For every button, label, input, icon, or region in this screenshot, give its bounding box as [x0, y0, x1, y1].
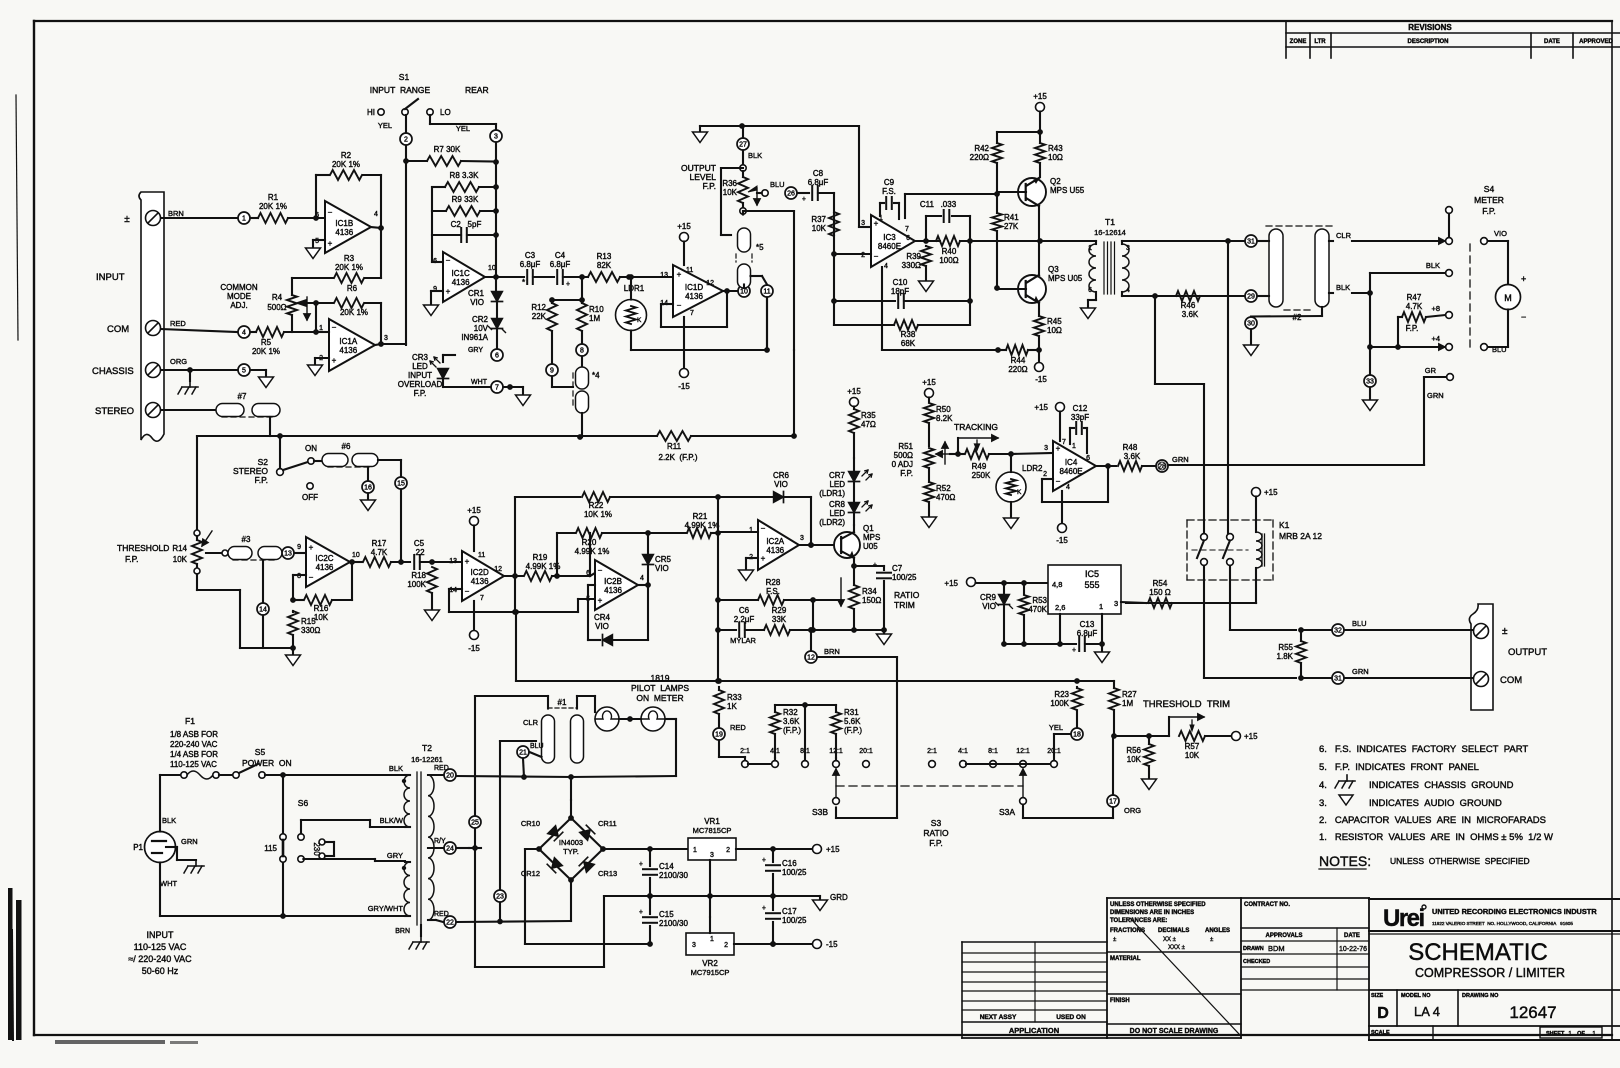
svg-text:R16: R16	[314, 604, 329, 613]
svg-text:CR2: CR2	[472, 315, 489, 324]
VR2 pin1 to ground rail	[709, 917, 711, 933]
wire S3A 4:1-20:1 link	[966, 763, 1050, 765]
svg-text:CR7: CR7	[829, 471, 846, 480]
svg-text:7: 7	[690, 310, 694, 317]
svg-text:MATERIAL: MATERIAL	[1110, 956, 1141, 962]
wire R28/C6 rows junction riser	[812, 600, 814, 630]
svg-text:IC4: IC4	[1065, 458, 1078, 467]
svg-text:R52: R52	[936, 484, 951, 493]
wire COM to node 4	[161, 329, 237, 332]
svg-text:R21: R21	[693, 512, 708, 521]
bridge rectifier IN4003 TYP	[570, 800, 572, 818]
wire CR6 to Q1 base node	[810, 497, 812, 545]
transistor Q1 MPS U05	[834, 532, 860, 558]
capacitor C13 6.8uF	[1078, 637, 1080, 651]
T1 primary pins	[1095, 241, 1097, 244]
resistor R18 100K	[427, 567, 437, 593]
svg-text:4136: 4136	[604, 586, 622, 595]
node 27	[737, 138, 749, 150]
svg-text:XXX ±: XXX ±	[1168, 945, 1186, 951]
node 24	[444, 842, 456, 854]
svg-text:6.8μF: 6.8μF	[520, 260, 541, 269]
resistor R13 82K	[588, 272, 620, 282]
svg-text:DIMENSIONS ARE IN INCHES: DIMENSIONS ARE IN INCHES	[1110, 910, 1194, 916]
svg-text:F1: F1	[185, 716, 195, 726]
svg-text:1/8 ASB FOR: 1/8 ASB FOR	[170, 730, 218, 739]
lamp link wire	[619, 718, 641, 720]
capacitor C17 100/25	[772, 896, 774, 910]
svg-text:150 Ω: 150 Ω	[1149, 588, 1171, 597]
resistor R43 10ohm	[1035, 143, 1045, 163]
R36 wiper	[748, 186, 757, 192]
svg-text:+15: +15	[1034, 403, 1048, 412]
capacitor C7 100/25	[854, 565, 884, 567]
svg-text:APPROVED: APPROVED	[1579, 39, 1613, 45]
wire P1 top to fuse	[159, 775, 161, 832]
-15 supply Q3	[1038, 350, 1040, 362]
svg-text:APPROVALS: APPROVALS	[1266, 933, 1303, 939]
timer IC5 555	[1048, 565, 1121, 614]
svg-text:470Ω: 470Ω	[936, 493, 955, 502]
wire S6 upper link to T2 tap	[300, 820, 302, 834]
resistor R56 10K	[1144, 744, 1154, 766]
svg-text:C16: C16	[782, 859, 797, 868]
wire jack5 to node10	[743, 285, 745, 289]
op-amp IC2C	[306, 537, 350, 587]
S4 common stub	[1446, 207, 1453, 214]
svg-text:1: 1	[693, 847, 697, 854]
svg-text:STEREO: STEREO	[95, 406, 134, 417]
svg-text:25: 25	[471, 820, 479, 827]
svg-text:4: 4	[1126, 287, 1130, 294]
GRD stub	[819, 896, 821, 900]
svg-text:OVERLOAD: OVERLOAD	[398, 380, 443, 389]
wire STEREO to jack 7	[161, 409, 216, 411]
svg-text:BLK: BLK	[748, 151, 762, 160]
svg-text:115: 115	[264, 844, 277, 853]
svg-text:USED ON: USED ON	[1056, 1014, 1086, 1021]
node 10	[738, 285, 750, 297]
+15 feed 555	[967, 578, 976, 587]
svg-text:10K: 10K	[723, 188, 738, 197]
svg-text:20K 1%: 20K 1%	[335, 263, 363, 272]
svg-text:+15: +15	[467, 506, 481, 515]
wire C8 to IC3 input	[833, 193, 835, 254]
svg-text:UNLESS OTHERWISE SPECIFIED: UNLESS OTHERWISE SPECIFIED	[1110, 902, 1206, 908]
node 14	[262, 560, 264, 603]
resistor R46 3.6K	[1176, 291, 1200, 301]
bridge minus to VR2 rail	[525, 848, 539, 850]
wire S3A wiper to node17	[1022, 805, 1024, 819]
diode CR12	[547, 857, 563, 873]
op-amp IC4 8460E	[1053, 441, 1096, 491]
jack #6	[322, 454, 348, 467]
S1 arm	[405, 99, 418, 109]
node 18	[1071, 728, 1083, 740]
svg-text:IC3: IC3	[883, 233, 896, 242]
svg-text:VR1: VR1	[704, 817, 720, 826]
svg-text:R22: R22	[589, 501, 604, 510]
pilot lamp DS2	[641, 707, 665, 731]
svg-text:GRN: GRN	[1427, 391, 1444, 400]
photocell LDR1	[616, 300, 647, 331]
svg-text:D: D	[1377, 1005, 1389, 1022]
Q1 emitter to R34	[853, 558, 855, 585]
wire input to node 1	[161, 217, 237, 219]
bridge diamond wires	[539, 818, 571, 849]
svg-text:GRN: GRN	[1352, 667, 1369, 676]
svg-text:MC7815CP: MC7815CP	[693, 826, 732, 835]
svg-text:DRAWING NO: DRAWING NO	[1462, 993, 1499, 999]
svg-text:+: +	[639, 861, 643, 868]
svg-text:2:1: 2:1	[927, 748, 937, 755]
svg-text:TRACKING: TRACKING	[954, 422, 998, 432]
svg-text:4.99K 1%: 4.99K 1%	[526, 562, 561, 571]
svg-text:R11: R11	[667, 442, 682, 451]
svg-text:LED: LED	[829, 509, 845, 518]
wire R1 to IC1B pin6	[288, 217, 325, 219]
svg-text:BRN: BRN	[824, 647, 840, 656]
+15 relay coil	[1252, 488, 1261, 497]
transistor Q3 MPS U05	[1018, 275, 1046, 303]
svg-text:11922 VALERIO STREET NO. HOLL: 11922 VALERIO STREET NO. HOLLYWOOD, CALI…	[1432, 921, 1573, 926]
node 21	[517, 746, 529, 758]
svg-text:16: 16	[364, 485, 372, 492]
svg-text:-15: -15	[1056, 536, 1068, 545]
svg-text:+: +	[1056, 444, 1061, 453]
svg-text:30: 30	[1247, 321, 1255, 328]
svg-text:470K: 470K	[1028, 605, 1047, 614]
svg-text:4.: 4.	[1319, 780, 1327, 791]
node 33	[1364, 375, 1376, 387]
svg-text:U05: U05	[863, 542, 878, 551]
svg-text:VIO: VIO	[1494, 229, 1507, 238]
capacitor C10 18pF loop	[833, 254, 835, 325]
svg-text:CR4: CR4	[594, 613, 611, 622]
feedback row R6	[302, 302, 333, 304]
svg-text:C12: C12	[1073, 404, 1088, 413]
svg-text:CR1: CR1	[468, 289, 485, 298]
svg-text:C13: C13	[1080, 620, 1095, 629]
+15 supply Q2	[1036, 103, 1045, 112]
svg-text:+: +	[639, 909, 643, 916]
svg-text:R4: R4	[272, 293, 283, 302]
ground T1 pin6	[1081, 308, 1096, 319]
contract / approvals box	[1240, 898, 1242, 1038]
svg-text:IN961A: IN961A	[461, 333, 488, 342]
S4 +4 contact with arrow	[1446, 344, 1453, 351]
wire 555 pin1 down	[1101, 614, 1103, 644]
wire GR contact down to GRN row	[1424, 376, 1447, 378]
svg-text:F.P.: F.P.	[414, 389, 427, 398]
svg-text:(LDR1): (LDR1)	[819, 489, 845, 498]
ground node16	[367, 494, 369, 501]
bottom-left smudge text	[55, 1040, 165, 1044]
S4 CLR contact with arrow	[1432, 240, 1445, 242]
svg-text:20K 1%: 20K 1%	[340, 308, 368, 317]
svg-text:T2: T2	[422, 743, 432, 753]
svg-text:S3A: S3A	[999, 807, 1015, 817]
svg-text:−: −	[874, 252, 879, 261]
ground at IC1C pin9	[431, 290, 443, 292]
wire R36 bottom to R11 bus	[742, 211, 744, 215]
svg-text:7: 7	[495, 385, 499, 392]
jack #5	[738, 228, 751, 252]
+15 IC4	[1056, 403, 1065, 412]
svg-text:F.S.: F.S.	[766, 587, 780, 596]
svg-text:16-12614: 16-12614	[1094, 228, 1126, 237]
op-amp IC2D	[462, 551, 504, 601]
ground R15	[263, 647, 293, 649]
T2 core	[416, 772, 418, 925]
svg-text:7: 7	[1062, 439, 1066, 446]
wire R36 top loop to jack5	[721, 167, 743, 169]
svg-text:10: 10	[740, 289, 748, 296]
svg-text:±: ±	[124, 214, 130, 225]
svg-text:4136: 4136	[452, 278, 470, 287]
svg-text:LDR1: LDR1	[624, 284, 645, 293]
svg-text:ORG: ORG	[170, 357, 187, 366]
svg-text:−: −	[328, 208, 333, 217]
wire jack2 BLK out	[1329, 292, 1333, 294]
S6 230 link box	[319, 839, 325, 845]
svg-text:+: +	[1072, 647, 1076, 654]
jack #2	[1269, 229, 1283, 307]
resistor R10 1M	[579, 297, 585, 303]
svg-text:R10: R10	[589, 305, 604, 314]
tracking up arrow	[944, 442, 946, 464]
resistor R20 4.99K 1%	[557, 532, 575, 534]
svg-text:1: 1	[710, 936, 714, 943]
resistor R16 10K	[293, 599, 303, 601]
svg-text:*: *	[522, 278, 525, 287]
svg-text:LED: LED	[412, 362, 428, 371]
ground C13	[1101, 644, 1103, 652]
svg-text:9: 9	[550, 368, 554, 375]
svg-text:26: 26	[787, 191, 795, 198]
resistor R17 4.7K	[363, 557, 391, 567]
svg-text:−: −	[332, 323, 337, 332]
wire R6 junction into IC1A pin1	[315, 303, 317, 332]
svg-text:2100/30: 2100/30	[659, 919, 688, 928]
resistor R50 8.2K	[924, 403, 934, 423]
svg-text:R13: R13	[597, 252, 612, 261]
svg-text:CR5: CR5	[655, 555, 672, 564]
svg-text:SIZE: SIZE	[1371, 993, 1384, 999]
svg-text:14: 14	[259, 607, 267, 614]
svg-text:S6: S6	[298, 798, 309, 808]
svg-text:COM: COM	[107, 324, 129, 335]
svg-text:VIO: VIO	[774, 480, 788, 489]
capacitor C9 F.S. loop	[879, 203, 881, 216]
svg-text:XX ±: XX ±	[1163, 937, 1177, 943]
zener CR2 10V IN961A	[496, 303, 498, 317]
svg-text:4136: 4136	[471, 577, 489, 586]
svg-text:CHECKED: CHECKED	[1243, 959, 1270, 965]
-15 IC2D	[473, 601, 475, 630]
svg-text:3: 3	[494, 134, 498, 141]
IC2D feedback loop	[449, 588, 462, 590]
svg-text:19: 19	[715, 732, 723, 739]
svg-text:32: 32	[1334, 628, 1342, 635]
svg-text:4:1: 4:1	[958, 748, 968, 755]
svg-text:21: 21	[519, 750, 527, 757]
node 15	[378, 459, 401, 461]
svg-text:1.8K: 1.8K	[1277, 652, 1294, 661]
svg-text:R3: R3	[344, 254, 355, 263]
node 19	[713, 728, 725, 740]
svg-text:12: 12	[706, 280, 714, 287]
svg-text:R38: R38	[901, 330, 916, 339]
capacitor C16 100/25	[772, 849, 774, 862]
pilot lamp DS1	[595, 707, 619, 731]
svg-text:2,6: 2,6	[1055, 603, 1065, 612]
svg-text:NOTES:: NOTES:	[1319, 853, 1371, 869]
node 12 stub	[810, 630, 812, 651]
LED CR7 (LDR1 drive)	[853, 525, 855, 532]
svg-text:*4: *4	[592, 371, 600, 380]
pot R36 10K	[740, 165, 746, 171]
svg-text:4: 4	[242, 330, 246, 337]
svg-text:R42: R42	[974, 144, 989, 153]
svg-text:+15: +15	[826, 845, 840, 854]
svg-text:R15: R15	[301, 617, 316, 626]
svg-text:10K: 10K	[314, 613, 329, 622]
svg-text:THRESHOLD: THRESHOLD	[117, 543, 169, 553]
svg-text:8:1: 8:1	[988, 748, 998, 755]
screw terminal plus/minus	[146, 211, 161, 226]
op-amp IC3 8460E	[871, 215, 915, 267]
svg-text:R51: R51	[898, 442, 913, 451]
resistor R35 47ohm	[850, 398, 859, 407]
svg-text:CR12: CR12	[521, 869, 540, 878]
node 13	[282, 547, 294, 559]
wire node5 to ground	[251, 369, 266, 371]
diode CR1 VIO	[495, 277, 497, 290]
capacitor C3 6.8uF	[502, 276, 524, 278]
node 25	[457, 847, 470, 849]
svg-text:MPS U05: MPS U05	[1048, 274, 1083, 283]
svg-text:27K: 27K	[1004, 222, 1019, 231]
svg-text:6: 6	[586, 570, 590, 577]
op-amp IC2B	[595, 560, 638, 610]
svg-text:OUTPUT: OUTPUT	[1508, 647, 1547, 658]
resistor R27 1M	[1113, 681, 1115, 688]
transistor Q2 MPS U55	[1018, 178, 1046, 206]
svg-text:S3B: S3B	[812, 807, 828, 817]
svg-text:IC1C: IC1C	[452, 269, 470, 278]
svg-text:−: −	[598, 566, 603, 575]
IC4 output	[1096, 465, 1116, 467]
svg-text:NEXT ASSY: NEXT ASSY	[980, 1014, 1017, 1021]
svg-text:IC5: IC5	[1085, 569, 1099, 579]
wire R13 to IC1D pin13	[620, 276, 673, 278]
-15 supply IC1D	[683, 317, 685, 368]
op-amp IC1B	[325, 201, 371, 253]
wire top bus to IC3 pin3	[858, 126, 860, 227]
node 17	[1107, 795, 1119, 807]
svg-text:2: 2	[404, 137, 408, 144]
R49 wiper arrow	[975, 440, 980, 450]
capacitor C2 5pF	[432, 234, 461, 236]
ground at IC1B pin5	[313, 239, 325, 241]
svg-text:TYP.: TYP.	[563, 847, 579, 856]
node 2	[400, 133, 412, 145]
svg-text:S1: S1	[399, 72, 410, 82]
wire node1 to R1	[251, 217, 258, 219]
svg-text:BRN: BRN	[168, 209, 184, 218]
resistor R53 470K	[1023, 583, 1025, 594]
svg-text:C3: C3	[525, 251, 536, 260]
svg-text:LTR: LTR	[1314, 39, 1326, 45]
svg-text:LO: LO	[440, 108, 451, 117]
svg-text:6.8μF: 6.8μF	[808, 178, 829, 187]
svg-text:MC7915CP: MC7915CP	[691, 968, 730, 977]
svg-text:4.99K 1%: 4.99K 1%	[575, 547, 610, 556]
ratio bus to S3	[516, 680, 1114, 682]
svg-text:20K 1%: 20K 1%	[259, 202, 287, 211]
svg-text:WHT: WHT	[471, 379, 488, 386]
S2 OFF contact	[307, 483, 313, 489]
svg-text:OF: OF	[1577, 1031, 1585, 1037]
resistor R31 5.6K FP	[835, 758, 837, 761]
ground LDR2	[1010, 502, 1012, 518]
bottom ground loop	[475, 966, 604, 968]
svg-text:BLK: BLK	[1426, 261, 1440, 270]
svg-text:MODE: MODE	[227, 292, 251, 301]
wire node7 to ground	[504, 386, 524, 388]
svg-text:R40: R40	[942, 247, 957, 256]
IC2A output to Q1	[799, 544, 834, 546]
resistor R52 470ohm	[924, 482, 934, 502]
svg-text:RATIO: RATIO	[894, 590, 920, 600]
svg-text:GRY: GRY	[387, 851, 403, 860]
svg-text:10K: 10K	[173, 555, 188, 564]
svg-text:RED: RED	[730, 723, 746, 732]
svg-text:12: 12	[494, 566, 502, 573]
svg-text:−: −	[309, 573, 314, 582]
svg-text:K: K	[1017, 489, 1022, 496]
ground C7 node	[883, 630, 885, 634]
svg-text:#7: #7	[238, 392, 247, 401]
svg-text:C8: C8	[813, 169, 824, 178]
svg-text:*5: *5	[756, 243, 764, 252]
svg-text:+: +	[873, 562, 877, 569]
svg-text:+: +	[761, 554, 766, 563]
svg-text:12647: 12647	[1509, 1003, 1556, 1022]
svg-text:230: 230	[312, 842, 321, 856]
svg-text:R31: R31	[844, 708, 859, 717]
svg-text:INDICATES CHASSIS GROUND: INDICATES CHASSIS GROUND	[1369, 780, 1514, 791]
svg-text:LDR2: LDR2	[1022, 464, 1043, 473]
svg-text:31: 31	[1334, 676, 1342, 683]
resistor R5 20K 1%	[251, 331, 256, 333]
svg-text:R9 33K: R9 33K	[452, 195, 479, 204]
svg-text:R43: R43	[1048, 144, 1063, 153]
svg-text:F.P.: F.P.	[1406, 324, 1419, 333]
svg-text:#1: #1	[558, 698, 567, 707]
S3B wiper	[833, 798, 840, 805]
svg-text:BLK: BLK	[389, 764, 403, 773]
svg-text:33pF: 33pF	[1071, 413, 1089, 422]
switch S5	[233, 772, 239, 778]
svg-text:SCALE: SCALE	[1371, 1030, 1390, 1036]
wire node12 to S3B wiper loop	[818, 656, 898, 658]
application block	[962, 941, 1107, 943]
svg-text:6.8μF: 6.8μF	[550, 260, 571, 269]
svg-text:10K: 10K	[812, 224, 827, 233]
C13 row	[1004, 643, 1076, 645]
